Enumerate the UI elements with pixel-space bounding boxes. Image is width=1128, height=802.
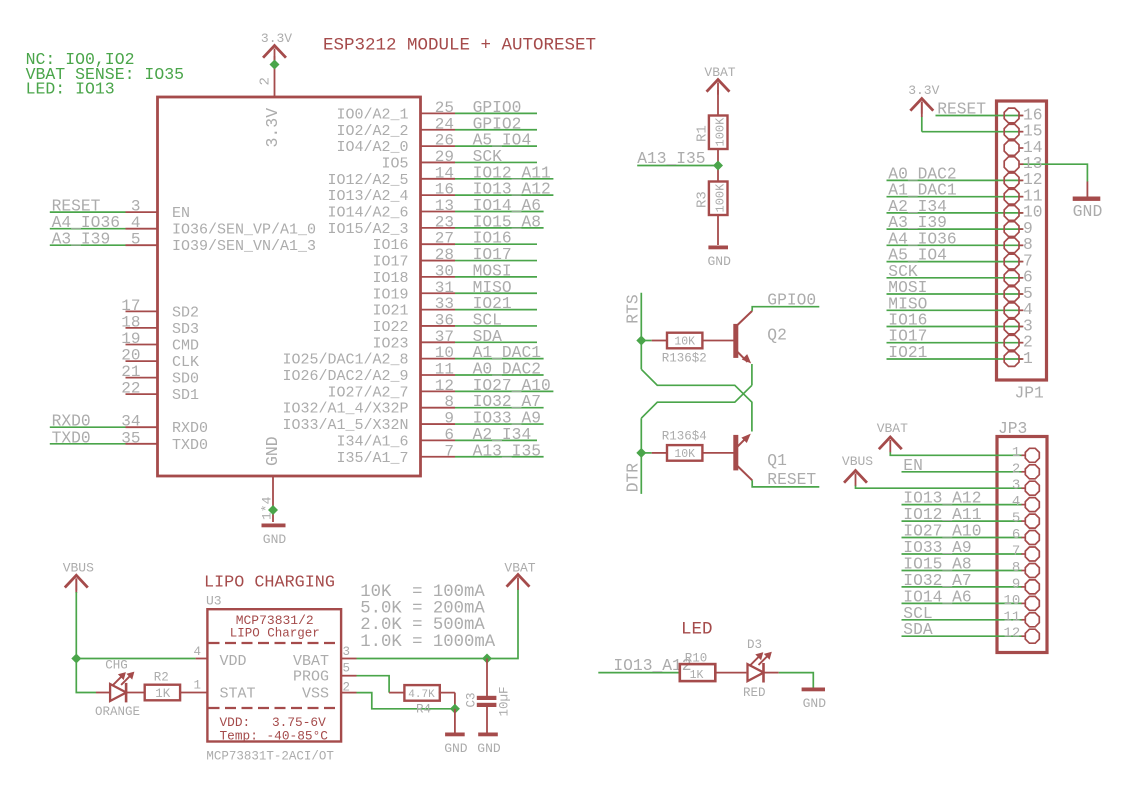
ground GND (C3) <box>478 733 498 737</box>
ground GND (divider) <box>708 246 728 250</box>
ground GND (IC bottom) <box>262 524 286 528</box>
pin 5 stub <box>341 675 356 677</box>
svg-text:29: 29 <box>435 148 454 166</box>
wire net A13_I35 <box>637 165 718 167</box>
LED CHG (orange) <box>95 659 145 719</box>
svg-text:5: 5 <box>131 231 141 249</box>
svg-text:IO17: IO17 <box>372 254 408 271</box>
pin 11 stub <box>421 374 456 376</box>
svg-text:Temp:: Temp: <box>220 729 258 744</box>
svg-text:1.0K = 1000mA: 1.0K = 1000mA <box>360 633 495 652</box>
svg-text:R2: R2 <box>154 671 169 685</box>
svg-text:7: 7 <box>1012 544 1020 560</box>
svg-text:EN: EN <box>172 205 190 222</box>
wire R1-R3 <box>717 149 719 182</box>
svg-text:STAT: STAT <box>220 686 256 703</box>
pin 35 stub <box>126 443 158 445</box>
svg-text:4.7K: 4.7K <box>408 689 435 701</box>
svg-text:VSS: VSS <box>302 686 329 703</box>
junction DTR <box>636 448 646 458</box>
wire net IO13_A12 <box>598 672 680 674</box>
wire net SCL <box>455 325 537 327</box>
svg-text:2: 2 <box>1012 461 1020 477</box>
svg-text:R136$4: R136$4 <box>662 429 707 443</box>
wire 3.3V to IC <box>274 56 276 97</box>
wire net MOSI <box>455 276 537 278</box>
svg-text:IO33/A1_5/X32N: IO33/A1_5/X32N <box>282 417 408 434</box>
pin 25 stub <box>421 112 456 114</box>
JP3 pad 10 <box>1025 596 1039 610</box>
pin 3 stub <box>126 211 158 213</box>
pin 10 stub <box>421 358 456 360</box>
pin 34 stub <box>126 426 158 428</box>
svg-text:IO18: IO18 <box>372 270 408 287</box>
wire net MOSI <box>887 293 1023 295</box>
svg-text:3.3V: 3.3V <box>263 108 282 148</box>
wire net A5_IO4 <box>887 261 1023 263</box>
table resistor/current <box>360 583 495 652</box>
supply 3.3V (JP1) <box>911 99 932 110</box>
wire net GPIO2 <box>455 129 537 131</box>
svg-text:TXD0: TXD0 <box>52 428 91 447</box>
JP1 pad 9 <box>1004 222 1019 237</box>
svg-text:17: 17 <box>121 297 140 315</box>
svg-text:SD2: SD2 <box>172 304 199 321</box>
pin 20 stub <box>126 360 158 362</box>
wire net RXD0 <box>50 426 126 428</box>
svg-text:27: 27 <box>435 230 454 248</box>
wire net EN <box>902 471 1023 473</box>
svg-text:IO12/A2_5: IO12/A2_5 <box>327 172 408 189</box>
pin 6 stub <box>421 439 456 441</box>
svg-text:VBUS: VBUS <box>63 561 94 576</box>
wire net MISO <box>887 309 1023 311</box>
svg-text:8: 8 <box>444 393 454 411</box>
svg-text:VBAT: VBAT <box>504 561 535 576</box>
svg-text:20: 20 <box>121 347 140 365</box>
wire VBAT to JP3 pin 1 <box>890 452 1022 455</box>
svg-text:9: 9 <box>444 410 454 428</box>
wire R3 to GND <box>717 215 719 245</box>
svg-text:R4: R4 <box>416 703 431 717</box>
svg-text:3.3V: 3.3V <box>261 31 292 46</box>
pin 8 stub <box>421 407 456 409</box>
junction RTS <box>636 336 646 346</box>
wire net IO16 <box>887 326 1023 328</box>
svg-text:LIPO CHARGING: LIPO CHARGING <box>204 574 335 593</box>
svg-text:1K: 1K <box>155 687 171 701</box>
wire net IO14_A6 <box>455 211 544 213</box>
junction A13_I35 <box>713 161 723 171</box>
pin 14 stub <box>421 178 456 180</box>
JP3 pad 7 <box>1025 547 1039 561</box>
supply VBUS (JP3) <box>845 471 866 482</box>
svg-text:100K: 100K <box>714 183 728 213</box>
wire net IO14_A6 <box>902 602 1023 604</box>
svg-text:3.3V: 3.3V <box>908 83 939 98</box>
svg-text:SD3: SD3 <box>172 321 199 338</box>
ground GND (JP1) <box>1073 197 1101 201</box>
svg-text:2: 2 <box>258 77 274 85</box>
wire net A1_DAC1 <box>887 196 1023 198</box>
JP3 pad 8 <box>1025 564 1039 578</box>
JP1 pad 8 <box>1004 238 1019 253</box>
supply VBAT (divider) <box>708 80 729 91</box>
wire net A2_I34 <box>887 212 1023 214</box>
svg-text:CMD: CMD <box>172 338 199 355</box>
JP1 pad 14 <box>1004 141 1019 156</box>
pin 29 stub <box>421 161 456 163</box>
wire net SDA <box>455 341 537 343</box>
svg-text:R1: R1 <box>695 125 711 142</box>
svg-text:3: 3 <box>343 645 351 659</box>
svg-text:23: 23 <box>435 213 454 231</box>
capacitor C3 <box>465 659 512 733</box>
svg-text:IO26/DAC2/A2_9: IO26/DAC2/A2_9 <box>282 368 408 385</box>
svg-text:2: 2 <box>343 681 351 695</box>
svg-text:GND: GND <box>707 254 731 269</box>
svg-text:R3: R3 <box>695 191 711 208</box>
svg-text:TXD0: TXD0 <box>172 437 208 454</box>
svg-text:C3: C3 <box>465 692 479 707</box>
wire PROG to R4 <box>357 676 390 693</box>
transistor Q2 <box>733 311 787 364</box>
svg-text:IO4/A2_0: IO4/A2_0 <box>336 139 408 156</box>
pin 16 stub <box>421 194 456 196</box>
wire net MISO <box>455 292 537 294</box>
svg-text:IO22: IO22 <box>372 319 408 336</box>
svg-text:ORANGE: ORANGE <box>95 705 140 719</box>
connector JP1 body <box>997 101 1047 380</box>
net DTR wire <box>640 418 642 494</box>
supply VBAT (charger) <box>508 575 529 586</box>
svg-text:19: 19 <box>121 330 140 348</box>
junction C3 <box>482 654 492 664</box>
wire net IO12_A11 <box>455 178 553 180</box>
JP1 pad 11 <box>1004 189 1019 204</box>
JP3 pad 3 <box>1025 481 1039 495</box>
svg-text:IO23: IO23 <box>372 335 408 352</box>
svg-text:LED: LED <box>681 620 713 640</box>
resistor R1 <box>695 116 728 150</box>
pin 12 stub <box>421 390 456 392</box>
svg-text:JP3: JP3 <box>998 419 1027 438</box>
pin 2 stub <box>341 692 356 694</box>
svg-text:16: 16 <box>435 181 454 199</box>
note text NC/VBAT/LED <box>26 50 184 99</box>
pin 22 stub <box>126 393 158 395</box>
pin 5 stub <box>126 244 158 246</box>
svg-text:11: 11 <box>1003 609 1020 625</box>
svg-text:3: 3 <box>131 198 141 216</box>
JP1 pad 16 <box>1004 108 1019 123</box>
IC U3 MCP73831 body <box>207 609 341 744</box>
svg-text:30: 30 <box>435 262 454 280</box>
pin 31 stub <box>421 292 456 294</box>
wire net A4_IO36 <box>887 244 1023 246</box>
svg-text:IO5: IO5 <box>381 155 408 172</box>
svg-text:IO39/SEN_VN/A1_3: IO39/SEN_VN/A1_3 <box>172 238 316 255</box>
svg-text:4: 4 <box>131 214 141 232</box>
LED D3 (red) <box>743 638 779 700</box>
svg-text:R136$2: R136$2 <box>662 352 707 366</box>
svg-text:33: 33 <box>435 295 454 313</box>
svg-text:RTS: RTS <box>623 294 642 323</box>
svg-text:SDA: SDA <box>903 620 933 639</box>
wire R4 to junction <box>454 693 456 709</box>
wire net A0_DAC2 <box>887 179 1023 181</box>
svg-text:1: 1 <box>193 679 201 693</box>
svg-text:28: 28 <box>435 246 454 264</box>
svg-text:24: 24 <box>435 115 454 133</box>
svg-text:IO19: IO19 <box>372 286 408 303</box>
wire Q2 collector to GPIO0 <box>752 307 819 311</box>
JP1 pad 1 <box>1004 352 1019 367</box>
wire net IO21 <box>455 309 537 311</box>
wire VBUS stub <box>75 579 77 593</box>
supply VBUS (charger) <box>66 575 87 586</box>
svg-text:Q1: Q1 <box>767 451 787 470</box>
svg-text:RESET: RESET <box>767 470 816 489</box>
pin 27 stub <box>421 243 456 245</box>
svg-text:12: 12 <box>435 377 454 395</box>
JP3 pad 9 <box>1025 580 1039 594</box>
svg-text:14: 14 <box>435 164 454 182</box>
svg-text:3: 3 <box>1012 478 1020 494</box>
svg-text:LIPO Charger: LIPO Charger <box>230 627 320 641</box>
svg-text:VDD:: VDD: <box>220 715 251 730</box>
svg-text:RXD0: RXD0 <box>172 420 208 437</box>
svg-text:GND: GND <box>803 696 827 711</box>
resistor R136$4 <box>652 429 734 461</box>
svg-text:MCP73831T-2ACI/OT: MCP73831T-2ACI/OT <box>206 750 334 764</box>
pin 7 stub <box>421 456 456 458</box>
wire RTS to R136$2 <box>641 340 651 342</box>
svg-text:1: 1 <box>1012 445 1020 461</box>
wire net SCK <box>887 277 1023 279</box>
pin 28 stub <box>421 260 456 262</box>
pin 13 stub <box>421 211 456 213</box>
svg-text:PROG: PROG <box>293 669 329 686</box>
JP3 pad 4 <box>1025 498 1039 512</box>
JP1 pad 7 <box>1004 254 1019 269</box>
wire net A2_I34 <box>455 439 537 441</box>
svg-text:10K: 10K <box>674 448 695 461</box>
wire JP1 pin 13 to GND <box>1023 164 1088 182</box>
svg-text:IO13/A2_4: IO13/A2_4 <box>327 188 408 205</box>
svg-text:IO2/A2_2: IO2/A2_2 <box>336 123 408 140</box>
svg-text:12: 12 <box>1003 626 1020 642</box>
svg-text:CLK: CLK <box>172 354 199 371</box>
svg-text:3.75-6V: 3.75-6V <box>272 715 326 730</box>
wire net A3_I39 <box>50 244 126 246</box>
wire net IO16 <box>455 243 537 245</box>
wire VBAT to R1 <box>717 90 719 116</box>
svg-text:18: 18 <box>121 313 140 331</box>
wire net IO32_A7 <box>902 586 1023 588</box>
svg-text:CHG: CHG <box>105 659 128 673</box>
svg-text:EN: EN <box>903 456 923 475</box>
wire VBAT net <box>357 589 519 659</box>
pin 19 stub <box>126 344 158 346</box>
resistor R10 <box>680 652 747 682</box>
svg-text:U3: U3 <box>206 594 222 609</box>
JP1 pad 10 <box>1004 206 1019 221</box>
pin 24 stub <box>421 129 456 131</box>
wire net GPIO0 <box>455 112 537 114</box>
wire net A0_DAC2 <box>455 374 544 376</box>
pin 26 stub <box>421 145 456 147</box>
JP3 pad 6 <box>1025 531 1039 545</box>
svg-text:A13_I35: A13_I35 <box>473 441 541 460</box>
wire DTR to Q2 emitter (crossover) <box>641 385 752 418</box>
svg-text:21: 21 <box>121 363 140 381</box>
svg-text:GND: GND <box>263 436 282 466</box>
resistor R2 <box>145 671 208 701</box>
svg-text:1*4: 1*4 <box>260 496 275 520</box>
resistor R4 <box>389 685 455 716</box>
svg-text:GND: GND <box>263 532 287 547</box>
resistor R136$2 <box>652 333 734 366</box>
wire net SCK <box>455 161 537 163</box>
svg-text:IO15/A2_3: IO15/A2_3 <box>327 221 408 238</box>
svg-text:1: 1 <box>1023 349 1033 368</box>
svg-text:RED: RED <box>743 686 766 700</box>
wire net IO15_A8 <box>455 227 544 229</box>
svg-text:A13_I35: A13_I35 <box>637 149 705 168</box>
wire DTR to R136$4 <box>641 452 651 454</box>
svg-text:VBAT: VBAT <box>704 65 735 80</box>
wire net A13_I35 <box>455 456 544 458</box>
pin 36 stub <box>421 325 456 327</box>
JP3 pad 1 <box>1025 448 1039 462</box>
wire net IO33_A9 <box>455 423 544 425</box>
svg-text:36: 36 <box>435 311 454 329</box>
wire net IO12_A11 <box>902 520 1023 522</box>
wire GND stub <box>1086 182 1088 197</box>
JP1 pad 3 <box>1004 319 1019 334</box>
connector JP3 body <box>997 437 1047 653</box>
svg-text:5: 5 <box>343 662 351 676</box>
svg-text:5: 5 <box>1012 511 1020 527</box>
svg-text:10: 10 <box>435 344 454 362</box>
svg-text:10: 10 <box>1003 593 1020 609</box>
JP1 pad 4 <box>1004 303 1019 318</box>
pin 4 stub <box>196 658 208 660</box>
JP3 pad 11 <box>1025 613 1039 627</box>
svg-text:D3: D3 <box>747 638 762 652</box>
JP1 pad 13 <box>1004 157 1019 172</box>
svg-text:GPIO0: GPIO0 <box>767 291 816 310</box>
JP1 pad 2 <box>1004 335 1019 350</box>
wire net IO13_A12 <box>902 504 1023 506</box>
svg-text:26: 26 <box>435 132 454 150</box>
pin 9 stub <box>421 423 456 425</box>
JP1 pad 12 <box>1004 173 1019 188</box>
supply 3.3V (IC top) <box>264 46 285 57</box>
pin 21 stub <box>126 377 158 379</box>
svg-text:7: 7 <box>444 442 454 460</box>
wire net IO15_A8 <box>902 570 1023 572</box>
svg-text:8: 8 <box>1012 560 1020 576</box>
svg-text:RESET: RESET <box>937 100 986 119</box>
svg-text:IO21: IO21 <box>888 343 927 362</box>
JP3 pad 2 <box>1025 465 1039 479</box>
pin 3 stub <box>341 658 356 660</box>
svg-text:IO0/A2_1: IO0/A2_1 <box>336 106 408 123</box>
svg-text:100K: 100K <box>714 117 728 147</box>
svg-text:VBAT: VBAT <box>877 421 908 436</box>
svg-text:11: 11 <box>435 361 454 379</box>
wire net RESET <box>936 115 1023 117</box>
JP1 pad 6 <box>1004 270 1019 285</box>
wire net SCL <box>902 619 1023 621</box>
wire VSS to GND <box>357 693 455 709</box>
wire RTS to Q1 emitter (crossover) <box>641 369 752 431</box>
svg-text:IO21: IO21 <box>372 303 408 320</box>
svg-text:IO36/SEN_VP/A1_0: IO36/SEN_VP/A1_0 <box>172 222 316 239</box>
wire net IO33_A9 <box>902 553 1023 555</box>
supply VBAT (JP3) <box>880 437 901 448</box>
svg-text:Q2: Q2 <box>767 326 787 345</box>
wire net IO13_A12 <box>455 194 553 196</box>
junction VBUS <box>71 654 81 664</box>
pin 17 stub <box>126 310 158 312</box>
ESP3212 module U$1 body <box>158 97 421 476</box>
svg-text:1K: 1K <box>690 669 704 682</box>
wire net TXD0 <box>50 443 126 445</box>
wire IC GND <box>272 476 274 522</box>
svg-text:GND: GND <box>477 741 501 756</box>
pin 30 stub <box>421 276 456 278</box>
svg-text:10µF: 10µF <box>498 686 512 716</box>
wire net A1_DAC1 <box>455 358 544 360</box>
pin 18 stub <box>126 327 158 329</box>
wire Q1 collector to RESET <box>752 480 819 487</box>
svg-text:A3_I39: A3_I39 <box>52 230 111 249</box>
ground GND (LED) <box>802 688 825 692</box>
svg-text:6: 6 <box>444 426 454 444</box>
net RTS wire <box>640 293 642 370</box>
wire net A5_IO4 <box>455 145 537 147</box>
ground GND (R4) <box>445 733 465 737</box>
svg-text:6: 6 <box>1012 527 1020 543</box>
wire net IO17 <box>455 260 537 262</box>
junction R4/VSS <box>450 704 460 714</box>
wire net IO32_A7 <box>455 407 544 409</box>
wire net A3_I39 <box>887 228 1023 230</box>
svg-text:25: 25 <box>435 99 454 117</box>
wire VBUS vertical <box>76 592 96 693</box>
svg-text:R10: R10 <box>685 652 708 666</box>
svg-text:10K: 10K <box>674 336 695 349</box>
svg-text:VDD: VDD <box>220 653 247 670</box>
svg-text:JP1: JP1 <box>1015 384 1044 403</box>
wire net IO21 <box>887 358 1023 360</box>
svg-text:IO16: IO16 <box>372 237 408 254</box>
svg-text:I34/A1_6: I34/A1_6 <box>336 433 408 450</box>
svg-text:SD1: SD1 <box>172 387 199 404</box>
wire Q2 emitter <box>751 364 753 385</box>
svg-text:ESP3212 MODULE + AUTORESET: ESP3212 MODULE + AUTORESET <box>323 36 596 56</box>
svg-text:LED: IO13: LED: IO13 <box>26 80 115 99</box>
JP3 pad 12 <box>1025 629 1039 643</box>
wire net SDA <box>902 635 1023 637</box>
wire net IO17 <box>887 342 1023 344</box>
svg-text:13: 13 <box>435 197 454 215</box>
pin 23 stub <box>421 227 456 229</box>
wire net RESET <box>50 211 126 213</box>
